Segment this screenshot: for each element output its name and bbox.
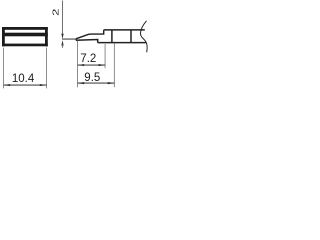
dimension 10.4 extension line left bbox=[3, 48, 5, 89]
blade tip end face bbox=[75, 39, 77, 41]
dimension 10.4 extension line right bbox=[46, 48, 48, 89]
blade front top bar bbox=[2, 27, 48, 30]
background bbox=[0, 0, 150, 93]
dimension 10.4 arrow right bbox=[40, 84, 47, 86]
shaft joint line 1 bbox=[111, 30, 113, 43]
dimension 2 extension line to tip bbox=[62, 38, 76, 40]
svg-text:2: 2 bbox=[51, 9, 60, 16]
blade front middle bar bbox=[2, 33, 48, 37]
blade front left edge bbox=[2, 27, 5, 46]
break line bbox=[140, 21, 147, 53]
svg-text:7.2: 7.2 bbox=[80, 53, 96, 65]
svg-text:10.4: 10.4 bbox=[12, 73, 35, 85]
dimension 7.2 extension line right bbox=[104, 44, 106, 68]
blade bottom edge and step bbox=[76, 40, 98, 43]
dimension 2 vertical line upper bbox=[62, 1, 64, 35]
dimension 7.2 arrow right bbox=[99, 64, 106, 66]
shaft top line bbox=[104, 29, 145, 31]
dimension 9.5 line bbox=[78, 82, 115, 84]
dimension 9.5 extension line right bbox=[113, 44, 115, 88]
dimension 2 down arrow bbox=[61, 34, 63, 39]
dimension 2 vertical line lower bbox=[62, 45, 64, 48]
dimension 9.5 arrow left bbox=[78, 82, 85, 84]
dimension 7.2 line bbox=[78, 64, 106, 66]
dimension 10.4 line bbox=[4, 84, 47, 86]
svg-text:9.5: 9.5 bbox=[84, 72, 100, 84]
blade front view: outer frame bbox=[2, 27, 48, 46]
shaft joint line 2 bbox=[130, 30, 132, 43]
dimension 9.5 arrow right bbox=[108, 82, 115, 84]
blade front right edge bbox=[45, 27, 48, 46]
blade front bottom bar bbox=[2, 44, 48, 47]
dimension 10.4 arrow left bbox=[4, 84, 11, 86]
dimension 7.2/9.5 extension line left bbox=[77, 41, 79, 87]
dimension 7.2 arrow left bbox=[78, 64, 85, 66]
shaft bottom line bbox=[98, 42, 147, 44]
dimension 2 up arrow bbox=[61, 40, 63, 45]
blade top edge bbox=[76, 30, 104, 39]
tip side view outline bbox=[76, 21, 147, 53]
